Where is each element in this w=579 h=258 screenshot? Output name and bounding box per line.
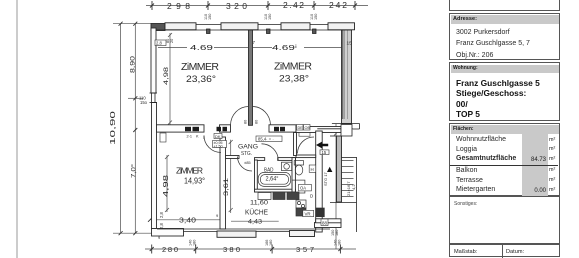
svg-text:2,8: 2,8 [159, 212, 164, 218]
svg-text:OB: OB [305, 126, 311, 130]
svg-text:STG.: STG. [241, 151, 252, 157]
svg-text:7: 7 [253, 40, 256, 45]
svg-text:320: 320 [226, 1, 247, 11]
svg-text:OA: OA [300, 186, 306, 191]
svg-text:ZiMMER: ZiMMER [274, 61, 312, 73]
svg-text:20: 20 [170, 39, 174, 43]
svg-text:357: 357 [296, 245, 314, 254]
svg-text:2,8: 2,8 [159, 223, 164, 229]
svg-text:4,98: 4,98 [163, 66, 170, 85]
svg-text:180: 180 [193, 240, 197, 246]
svg-text:2,8: 2,8 [156, 41, 162, 46]
svg-text:3,61: 3,61 [223, 177, 230, 196]
svg-text:8,90: 8,90 [130, 55, 137, 73]
svg-text:2,64°: 2,64° [266, 177, 280, 183]
svg-text:K: K [196, 134, 199, 138]
svg-text:9: 9 [216, 213, 219, 218]
svg-text:KÜCHE: KÜCHE [245, 209, 268, 217]
svg-text:2.42: 2.42 [283, 0, 304, 10]
svg-text:380: 380 [223, 245, 240, 254]
svg-text:180: 180 [337, 240, 341, 246]
svg-text:180: 180 [269, 240, 273, 246]
svg-text:15: 15 [322, 150, 327, 155]
svg-text:±1,50: ±1,50 [214, 144, 223, 148]
svg-text:23,36°: 23,36° [186, 74, 216, 85]
svg-text:150: 150 [314, 14, 318, 20]
svg-text:2-1: 2-1 [187, 134, 193, 138]
svg-text:D: D [310, 194, 313, 199]
svg-text:ZiMMER: ZiMMER [176, 166, 203, 176]
svg-text:15: 15 [347, 41, 353, 47]
svg-text:4.69: 4.69 [190, 43, 213, 52]
svg-text:GANG: GANG [238, 144, 258, 151]
svg-text:7,0°: 7,0° [130, 164, 138, 178]
svg-text:150: 150 [208, 14, 212, 20]
svg-text:ZiMMER: ZiMMER [181, 61, 219, 73]
svg-text:80: 80 [244, 120, 248, 124]
svg-text:4.69ⁱ: 4.69ⁱ [272, 43, 297, 52]
svg-text:H: H [311, 167, 314, 172]
svg-text:4,2: 4,2 [351, 184, 356, 190]
svg-text:11,60: 11,60 [250, 200, 268, 207]
svg-text:DE: DE [298, 126, 304, 130]
svg-text:85,4· = ·: 85,4· = · [258, 137, 274, 142]
svg-text:180: 180 [335, 230, 339, 236]
svg-text:BAD: BAD [264, 168, 274, 174]
svg-text:VR: VR [305, 212, 311, 217]
svg-text:DK: DK [215, 134, 221, 139]
svg-text:15o: 15o [140, 100, 148, 105]
svg-text:280: 280 [162, 245, 178, 254]
svg-text:242: 242 [329, 0, 347, 10]
svg-text:10,90: 10,90 [110, 111, 117, 145]
svg-text:14,93°: 14,93° [184, 177, 205, 186]
svg-text:4,43: 4,43 [248, 219, 262, 226]
svg-text:4,98: 4,98 [163, 175, 170, 197]
svg-text:23,38°: 23,38° [279, 74, 309, 85]
svg-text:STG 17: STG 17 [323, 171, 328, 186]
svg-text:80: 80 [255, 120, 259, 124]
svg-text:150: 150 [268, 14, 272, 20]
svg-text:88: 88 [322, 221, 327, 226]
svg-text:3,40: 3,40 [179, 218, 196, 225]
svg-text:298: 298 [167, 1, 190, 11]
svg-text:±85: ±85 [244, 160, 251, 165]
